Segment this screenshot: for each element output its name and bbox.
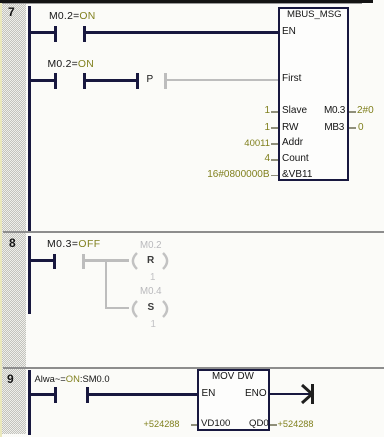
tick MB3 out: [349, 127, 356, 129]
pin ENO (MOV): [245, 389, 267, 399]
pin Addr: [282, 138, 303, 148]
coil S letter: [148, 303, 155, 313]
wire P contact to MBUS_MSG First (no flow): [167, 79, 279, 82]
tick VD100: [191, 424, 197, 426]
contact M0.3 left bar: [53, 254, 56, 270]
positive edge contact P right bar (no flow): [164, 73, 167, 89]
network separator 8/9: [3, 367, 384, 369]
contact SM0.0 left bar: [54, 387, 57, 403]
left margin yellow strip: [0, 3, 2, 437]
pin M0.3 output: [324, 106, 345, 116]
coil S parentheses (no flow): [126, 300, 174, 318]
function block MBUS_MSG body: [278, 7, 349, 181]
wire ENO to arrow: [270, 393, 311, 396]
coil R letter: [147, 256, 154, 266]
tick Addr: [271, 143, 278, 145]
contact M0.2 rung1 right bar: [83, 26, 86, 42]
value 0 at MB3: [358, 123, 364, 133]
wire contact to P contact: [86, 79, 136, 82]
tick RW: [271, 127, 278, 129]
pin Slave: [282, 106, 307, 116]
MBUS_MSG title: [287, 10, 342, 20]
network number 9: [7, 374, 14, 384]
coil S count 1 (gray): [151, 320, 156, 330]
wire contact to MBUS_MSG EN: [86, 31, 278, 34]
tick QD0: [270, 424, 277, 426]
label Alwa~=ON:SM0.0: [35, 374, 110, 384]
rung end arrow: [300, 383, 320, 405]
top window border bar: [0, 0, 373, 3]
tick Slave: [271, 111, 278, 113]
tick M0.3 out: [349, 111, 356, 113]
value 4 at Count: [264, 154, 270, 164]
label M0.3=OFF: [47, 240, 101, 250]
function block MOV_DW body: [197, 369, 270, 431]
value 40011 at Addr: [244, 139, 270, 149]
wire contact to branch (no flow): [85, 259, 107, 262]
branch vertical wire (no flow): [105, 259, 107, 309]
contact M0.3 right bar (no flow): [82, 254, 85, 270]
network separator 7/8: [3, 231, 384, 233]
pin VD100: [201, 419, 230, 429]
pin MB3 output: [324, 123, 344, 133]
pin EN (MOV): [202, 389, 216, 399]
value +524288 input: [144, 419, 180, 429]
tick Count: [271, 159, 278, 161]
pin EN: [282, 27, 296, 37]
wire branch to R coil (no flow): [107, 259, 129, 262]
network number 7: [8, 7, 15, 17]
contact M0.2 rung2 right bar: [83, 73, 86, 89]
positive edge contact P left bar: [136, 73, 139, 89]
coil R parentheses (no flow): [126, 252, 174, 270]
coil R count 1 (gray): [150, 273, 155, 283]
coil S operand M0.4 (gray): [140, 287, 162, 297]
pin RW: [282, 123, 298, 133]
positive edge contact P letter: [147, 75, 154, 85]
value 1 at Slave: [264, 106, 270, 116]
network 9 power rail: [28, 370, 31, 436]
wire rail to contact M0.2 rung2: [30, 79, 54, 82]
label M0.2=ON rung2: [48, 60, 95, 70]
coil R operand M0.2 (gray): [140, 241, 162, 251]
wire rail to contact M0.2 rung1: [30, 31, 54, 34]
top gray rule: [0, 3, 362, 5]
pin Count: [282, 154, 309, 164]
pin &VB11: [282, 170, 312, 180]
MOV_DW title: [212, 372, 234, 382]
wire rail to contact M0.3: [30, 259, 53, 262]
value 16#0800000B at &VB11: [207, 170, 269, 180]
left margin dithered column: [2, 4, 26, 434]
value 1 at RW: [264, 123, 270, 133]
wire rail to contact SM0.0: [30, 393, 54, 396]
contact M0.2 rung1 left bar: [54, 26, 57, 42]
pin First: [282, 74, 301, 84]
network 7 power rail: [28, 6, 31, 231]
network number 8: [9, 238, 16, 248]
value 2#0 at M0.3: [357, 106, 374, 116]
value +524288 output: [278, 419, 314, 429]
wire branch to S coil (no flow): [107, 307, 129, 310]
pin QD0: [249, 419, 269, 429]
contact SM0.0 right bar: [86, 387, 89, 403]
contact M0.2 rung2 left bar: [54, 73, 57, 89]
wire contact to MOV_DW EN: [89, 393, 197, 396]
network 8 power rail: [28, 236, 31, 314]
label M0.2=ON rung1: [49, 12, 96, 22]
tick &VB11: [271, 175, 278, 177]
